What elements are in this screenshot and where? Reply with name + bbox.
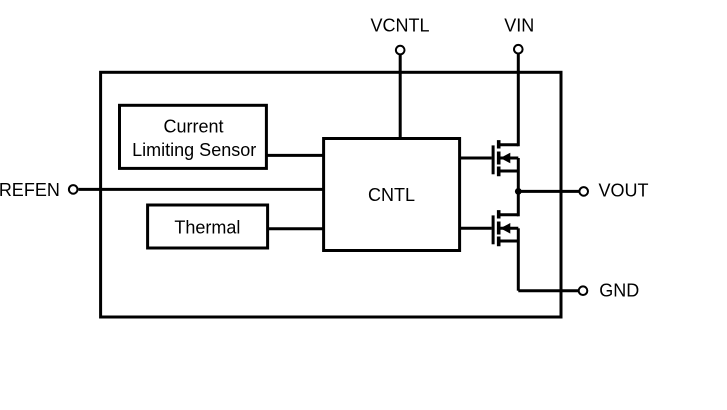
node: VOUT junction dot (515, 188, 522, 195)
wire: Current Limiting Sensor to CNTL (266, 154, 323, 157)
svg-text:VOUT: VOUT (599, 181, 649, 201)
svg-text:Thermal: Thermal (174, 217, 240, 237)
wire: junction to VOUT pin (518, 190, 579, 193)
block: Current Limiting Sensor (120, 105, 267, 168)
svg-text:Limiting Sensor: Limiting Sensor (132, 140, 256, 160)
pin terminal circle VOUT (579, 187, 588, 196)
pin label GND (599, 281, 639, 301)
pin label VOUT (599, 181, 649, 201)
pin terminal circle VCNTL (396, 46, 405, 55)
svg-text:VIN: VIN (504, 16, 534, 36)
transistor Q1 (top pass FET) (493, 140, 518, 216)
wire: Q2 source to GND pin (518, 289, 578, 292)
pin terminal circle REFEN (69, 185, 78, 194)
svg-text:Current: Current (163, 117, 223, 137)
transistor Q2 (bottom pass FET) (493, 210, 518, 291)
wire: REFEN pin to CNTL left (79, 188, 324, 191)
pin label VIN (504, 16, 534, 36)
block: Thermal (148, 205, 268, 248)
block: CNTL (324, 139, 460, 251)
svg-text:VCNTL: VCNTL (370, 15, 429, 35)
wire: VIN pin down to Q1 drain (517, 54, 520, 147)
pin terminal circle VIN (514, 45, 523, 54)
svg-text:CNTL: CNTL (368, 185, 415, 205)
wire: Thermal to CNTL (268, 227, 324, 230)
svg-text:GND: GND (599, 281, 639, 301)
pin label VCNTL (370, 15, 429, 35)
wire: VCNTL pin down to CNTL top (399, 55, 402, 139)
pin terminal circle GND (579, 286, 588, 295)
pin label REFEN (0, 180, 60, 200)
wire: CNTL to Q2 gate (460, 227, 492, 230)
wire: CNTL to Q1 gate (460, 157, 492, 160)
svg-text:REFEN: REFEN (0, 180, 60, 200)
outer IC boundary box (101, 72, 561, 317)
